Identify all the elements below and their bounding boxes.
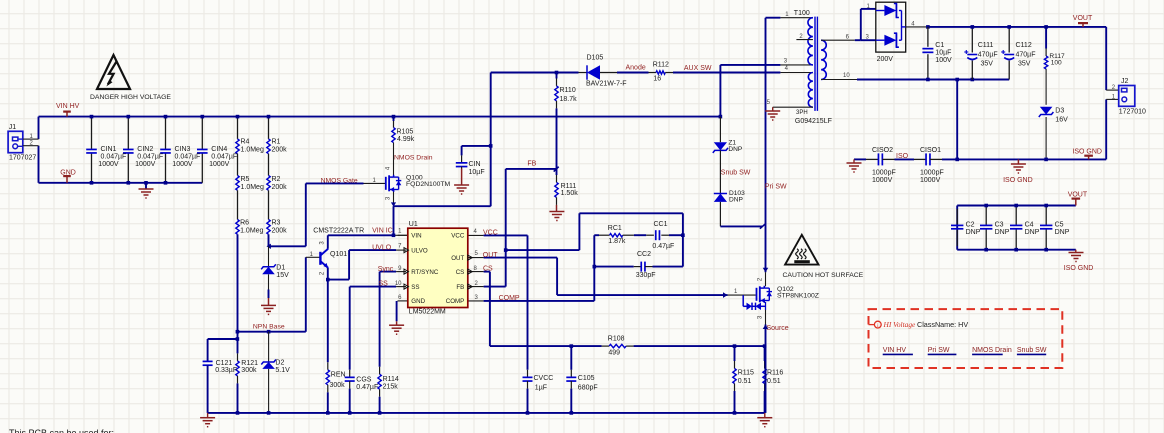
svg-text:10µF: 10µF	[935, 49, 951, 56]
svg-text:C112: C112	[1016, 42, 1032, 49]
svg-text:ISO GND: ISO GND	[1003, 177, 1033, 184]
svg-text:C3: C3	[995, 221, 1004, 228]
svg-text:FQD2N100TM: FQD2N100TM	[406, 181, 451, 188]
svg-text:VOUT: VOUT	[1073, 15, 1093, 22]
svg-text:D1: D1	[276, 264, 285, 271]
svg-text:CISO1: CISO1	[920, 147, 941, 154]
svg-text:R4: R4	[241, 139, 250, 146]
svg-text:R110: R110	[560, 87, 576, 94]
svg-text:1000pF: 1000pF	[872, 169, 896, 176]
svg-text:R115: R115	[738, 370, 754, 377]
svg-text:35V: 35V	[1018, 61, 1031, 68]
svg-text:CIN4: CIN4	[211, 146, 227, 153]
svg-text:ISO GND: ISO GND	[1072, 148, 1102, 155]
svg-text:Q101: Q101	[330, 251, 347, 258]
svg-text:VIN HV: VIN HV	[56, 103, 80, 110]
svg-text:CC1: CC1	[654, 221, 668, 228]
svg-text:Pri SW: Pri SW	[928, 347, 950, 354]
svg-text:1.0Meg: 1.0Meg	[240, 228, 263, 235]
svg-text:1µF: 1µF	[535, 384, 547, 391]
svg-text:ISO: ISO	[896, 153, 909, 160]
svg-text:200V: 200V	[877, 56, 894, 63]
svg-text:VIN IC: VIN IC	[372, 228, 393, 235]
svg-text:0.047µF: 0.047µF	[175, 154, 201, 161]
svg-text:OUT: OUT	[483, 252, 499, 259]
svg-text:GND: GND	[411, 298, 425, 305]
svg-text:300k: 300k	[241, 367, 257, 374]
svg-text:CIN: CIN	[469, 161, 481, 168]
svg-text:FB: FB	[527, 161, 536, 168]
svg-text:C2: C2	[966, 221, 975, 228]
svg-text:200k: 200k	[272, 184, 288, 191]
svg-text:4.99k: 4.99k	[397, 136, 415, 143]
svg-text:680pF: 680pF	[578, 384, 598, 391]
svg-text:R2: R2	[272, 176, 281, 183]
svg-text:CS: CS	[456, 269, 465, 276]
svg-text:R3: R3	[272, 220, 281, 227]
svg-text:CIN2: CIN2	[137, 146, 153, 153]
svg-text:R114: R114	[383, 376, 399, 383]
svg-text:0.47µF: 0.47µF	[652, 243, 674, 250]
svg-text:0.047µF: 0.047µF	[137, 154, 163, 161]
svg-text:D2: D2	[275, 360, 284, 367]
svg-text:CVCC: CVCC	[534, 375, 554, 382]
svg-text:1000V: 1000V	[172, 161, 193, 168]
svg-text:1.0Meg: 1.0Meg	[241, 184, 264, 191]
svg-text:10: 10	[395, 281, 402, 287]
svg-text:Pri SW: Pri SW	[765, 183, 787, 190]
svg-text:C111: C111	[978, 42, 994, 49]
svg-text:1707027: 1707027	[9, 154, 36, 161]
svg-text:CIN3: CIN3	[175, 146, 191, 153]
svg-text:SS: SS	[379, 280, 389, 287]
svg-text:1000V: 1000V	[920, 177, 941, 184]
svg-text:R111: R111	[561, 183, 577, 190]
svg-text:Sync: Sync	[378, 266, 394, 273]
svg-text:1000V: 1000V	[98, 161, 119, 168]
svg-text:15V: 15V	[276, 272, 289, 279]
svg-text:330pF: 330pF	[636, 272, 656, 279]
svg-text:R121: R121	[241, 360, 258, 367]
svg-text:J1: J1	[9, 124, 17, 131]
svg-text:SS: SS	[411, 284, 419, 291]
svg-text:1000V: 1000V	[872, 177, 893, 184]
svg-text:C1: C1	[935, 42, 944, 49]
svg-text:BAV21W-7-F: BAV21W-7-F	[586, 80, 627, 87]
svg-text:R116: R116	[767, 370, 783, 377]
svg-text:VCC: VCC	[483, 230, 498, 237]
svg-text:VCC: VCC	[451, 233, 465, 240]
svg-text:ISO GND: ISO GND	[1064, 265, 1094, 272]
svg-text:C4: C4	[1025, 221, 1034, 228]
svg-text:HI Voltage: HI Voltage	[883, 320, 917, 329]
svg-text:470µF: 470µF	[1016, 51, 1036, 58]
svg-text:DNP: DNP	[1025, 229, 1040, 236]
svg-text:16: 16	[653, 76, 661, 83]
svg-text:G094215LF: G094215LF	[795, 118, 832, 125]
svg-text:VOUT: VOUT	[1068, 191, 1088, 198]
svg-text:0.047µF: 0.047µF	[101, 154, 127, 161]
svg-text:R6: R6	[240, 220, 249, 227]
svg-text:1000V: 1000V	[135, 161, 156, 168]
svg-text:0.51: 0.51	[738, 378, 752, 385]
svg-text:R1: R1	[272, 139, 281, 146]
svg-text:D105: D105	[587, 55, 604, 62]
svg-text:C105: C105	[578, 375, 595, 382]
svg-text:0.47µF: 0.47µF	[356, 384, 378, 391]
svg-text:499: 499	[608, 350, 620, 357]
svg-text:R108: R108	[608, 336, 625, 343]
svg-text:200k: 200k	[272, 228, 288, 235]
svg-text:ClassName: HV: ClassName: HV	[917, 320, 968, 329]
svg-text:10: 10	[843, 73, 850, 79]
svg-text:35V: 35V	[981, 61, 994, 68]
svg-text:DANGER HIGH VOLTAGE: DANGER HIGH VOLTAGE	[90, 94, 171, 101]
svg-text:0.047µF: 0.047µF	[211, 154, 237, 161]
svg-text:CS: CS	[483, 265, 493, 272]
svg-text:R112: R112	[653, 62, 669, 69]
svg-text:COMP: COMP	[446, 298, 465, 305]
svg-text:LM5022MM: LM5022MM	[409, 309, 446, 316]
svg-text:T100: T100	[794, 10, 810, 17]
svg-text:CIN1: CIN1	[101, 146, 117, 153]
svg-text:VIN HV: VIN HV	[883, 347, 907, 354]
svg-text:DNP: DNP	[728, 146, 743, 153]
svg-text:CAUTION HOT SURFACE: CAUTION HOT SURFACE	[783, 272, 864, 279]
svg-text:COMP: COMP	[499, 295, 520, 302]
svg-text:CC2: CC2	[637, 251, 651, 258]
svg-text:STP8NK100Z: STP8NK100Z	[777, 292, 819, 299]
svg-text:AUX SW: AUX SW	[684, 65, 712, 72]
svg-text:100V: 100V	[935, 57, 952, 64]
svg-text:1000V: 1000V	[209, 161, 230, 168]
svg-text:NPN Base: NPN Base	[253, 324, 285, 331]
svg-text:1727010: 1727010	[1119, 108, 1146, 115]
svg-text:18.7k: 18.7k	[560, 96, 578, 103]
svg-text:200k: 200k	[272, 147, 288, 154]
svg-text:215k: 215k	[383, 384, 399, 391]
svg-text:470µF: 470µF	[978, 51, 998, 58]
svg-text:GND: GND	[60, 170, 76, 177]
svg-text:ULVO: ULVO	[411, 247, 428, 254]
svg-text:UVLO: UVLO	[372, 245, 392, 252]
svg-text:REN: REN	[331, 372, 346, 379]
svg-text:1.87k: 1.87k	[608, 238, 626, 245]
svg-text:J2: J2	[1121, 78, 1129, 85]
svg-text:VIN: VIN	[411, 233, 421, 240]
svg-text:0.51: 0.51	[767, 378, 781, 385]
svg-text:DNP: DNP	[729, 197, 744, 204]
svg-text:DNP: DNP	[966, 229, 981, 236]
svg-text:100: 100	[1051, 60, 1062, 67]
svg-text:U1: U1	[409, 221, 418, 228]
svg-text:D3: D3	[1055, 108, 1064, 115]
svg-text:0.33µF: 0.33µF	[215, 367, 237, 374]
svg-text:CGS: CGS	[356, 376, 372, 383]
svg-text:DNP: DNP	[1055, 229, 1070, 236]
svg-text:This PCB can be used for:: This PCB can be used for:	[9, 428, 114, 433]
svg-text:1000pF: 1000pF	[920, 169, 944, 176]
svg-text:3PH: 3PH	[796, 110, 808, 116]
svg-text:RT/SYNC: RT/SYNC	[411, 269, 439, 276]
svg-text:300k: 300k	[330, 382, 346, 389]
svg-text:RC1: RC1	[608, 225, 622, 232]
svg-text:10µF: 10µF	[469, 169, 485, 176]
svg-text:OUT: OUT	[451, 255, 464, 262]
svg-text:FB: FB	[456, 284, 464, 291]
svg-text:NMOS Drain: NMOS Drain	[394, 155, 433, 162]
svg-text:CISO2: CISO2	[872, 147, 893, 154]
svg-text:Snub SW: Snub SW	[721, 170, 751, 177]
svg-text:1.50k: 1.50k	[561, 190, 579, 197]
svg-text:Source: Source	[767, 325, 789, 332]
svg-text:NMOS Gate: NMOS Gate	[321, 177, 358, 184]
svg-text:C121: C121	[216, 360, 233, 367]
svg-text:R105: R105	[397, 128, 414, 135]
svg-text:C5: C5	[1055, 221, 1064, 228]
svg-text:Snub SW: Snub SW	[1017, 347, 1047, 354]
svg-text:5.1V: 5.1V	[275, 367, 290, 374]
svg-text:Anode: Anode	[626, 65, 646, 72]
svg-text:R5: R5	[241, 176, 250, 183]
svg-text:CMST2222A TR: CMST2222A TR	[313, 228, 364, 235]
svg-text:NMOS Drain: NMOS Drain	[972, 347, 1012, 354]
svg-text:1.0Meg: 1.0Meg	[241, 147, 264, 154]
svg-text:16V: 16V	[1055, 116, 1068, 123]
svg-text:DNP: DNP	[995, 229, 1010, 236]
